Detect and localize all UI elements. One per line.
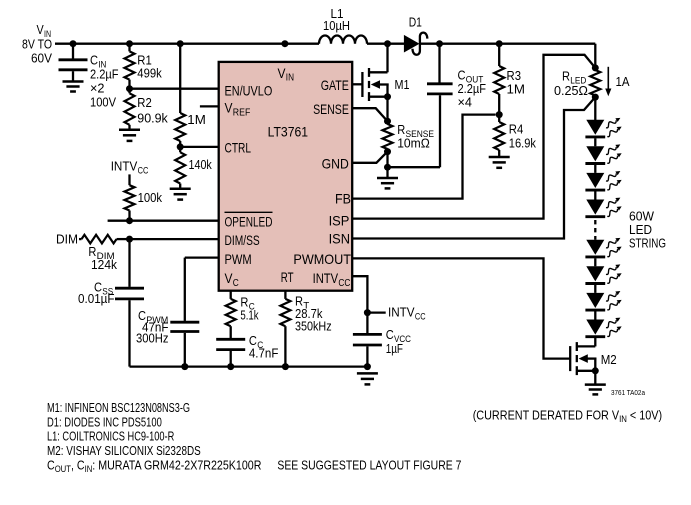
svg-text:V: V bbox=[225, 270, 234, 286]
pin label OPENLED bbox=[225, 212, 273, 229]
wire LED string to M2 drain bbox=[594, 337, 596, 347]
label R_LED bbox=[554, 69, 588, 99]
LED D1 light rays bbox=[606, 118, 622, 137]
svg-text:16.9k: 16.9k bbox=[509, 136, 537, 151]
svg-text:M1: INFINEON BSC123N08NS3-G: M1: INFINEON BSC123N08NS3-G bbox=[47, 400, 190, 415]
svg-text:M2: M2 bbox=[601, 352, 617, 367]
net label INTVCC right bbox=[388, 305, 426, 322]
node DIM/SS junction bbox=[126, 236, 133, 243]
node CC-rail junction bbox=[227, 363, 234, 370]
label 140k bbox=[189, 157, 213, 172]
wire LED link bbox=[594, 165, 596, 173]
svg-text:R2: R2 bbox=[137, 95, 152, 110]
pin label CTRL bbox=[225, 140, 252, 156]
pin label GATE bbox=[321, 77, 349, 93]
label 60W LED STRING bbox=[629, 209, 666, 251]
svg-text:350kHz: 350kHz bbox=[295, 318, 332, 333]
pin label ISN bbox=[329, 230, 350, 246]
svg-text:OPENLED: OPENLED bbox=[225, 214, 273, 230]
svg-text:ISN: ISN bbox=[329, 230, 350, 246]
svg-text:1A: 1A bbox=[616, 74, 630, 89]
svg-text:V: V bbox=[225, 100, 234, 116]
note M1 bbox=[47, 400, 190, 415]
label M2 bbox=[601, 352, 617, 367]
wire LED link bbox=[594, 285, 596, 293]
svg-text:(CURRENT DERATED FOR VIN < 10V: (CURRENT DERATED FOR VIN < 10V) bbox=[473, 407, 662, 424]
label R_T bbox=[295, 294, 332, 334]
wire LED link bbox=[594, 258, 596, 266]
svg-text:V: V bbox=[37, 22, 44, 37]
label R_SENSE bbox=[397, 122, 434, 151]
node RLED top junction bbox=[592, 64, 599, 71]
LED D1 of string bbox=[585, 120, 605, 137]
node CVCC-rail junction bbox=[364, 363, 371, 370]
svg-text:RT: RT bbox=[281, 269, 294, 285]
capacitor C_VCC bbox=[353, 313, 382, 367]
LED D7 light rays bbox=[606, 291, 622, 310]
wire FB bbox=[352, 115, 495, 199]
label C_VCC bbox=[386, 327, 411, 356]
svg-text:M1: M1 bbox=[395, 77, 410, 92]
svg-text:V: V bbox=[278, 65, 287, 81]
resistor R_C bbox=[226, 291, 236, 338]
LED D6 light rays bbox=[606, 264, 622, 283]
svg-text:IN: IN bbox=[286, 73, 294, 84]
capacitor C_PWM bbox=[170, 258, 199, 367]
pin label DIM/SS bbox=[225, 232, 260, 248]
IC name LT3761 bbox=[268, 123, 309, 139]
svg-text:90.9k: 90.9k bbox=[137, 111, 168, 126]
LED D7 of string bbox=[585, 293, 605, 310]
svg-text:INTV: INTV bbox=[388, 305, 415, 320]
wire OPENLED bbox=[108, 220, 219, 222]
wire input rail bbox=[55, 43, 319, 45]
svg-text:D1: DIODES INC PDS5100: D1: DIODES INC PDS5100 bbox=[47, 414, 162, 429]
pin label ISP bbox=[329, 212, 350, 228]
svg-text:REF: REF bbox=[233, 108, 251, 119]
svg-text:STRING: STRING bbox=[629, 236, 666, 251]
node R3 junction bbox=[496, 40, 503, 47]
resistor 100k bbox=[125, 174, 135, 220]
svg-text:DIM: DIM bbox=[56, 232, 78, 247]
label L1 bbox=[323, 6, 350, 33]
wire dashed LED string break bbox=[594, 220, 596, 240]
node RSENSE bottom junction bbox=[384, 148, 391, 155]
note COUT CIN bbox=[47, 457, 261, 474]
svg-text:60V: 60V bbox=[31, 50, 52, 65]
wire LED link bbox=[594, 138, 596, 146]
svg-text:10µH: 10µH bbox=[323, 18, 350, 33]
ground below R2 bbox=[119, 130, 140, 141]
node CTRL junction bbox=[177, 143, 184, 150]
transistor M1 bbox=[362, 68, 388, 101]
svg-text:100V: 100V bbox=[90, 95, 116, 110]
svg-text:SEE SUGGESTED LAYOUT FIGURE 7: SEE SUGGESTED LAYOUT FIGURE 7 bbox=[277, 458, 461, 473]
pin label VC bbox=[225, 270, 239, 289]
note current derated bbox=[473, 407, 662, 424]
svg-text:×2: ×2 bbox=[90, 81, 105, 96]
transistor M2 bbox=[570, 342, 596, 375]
svg-text:CC: CC bbox=[138, 165, 149, 176]
svg-text:CC: CC bbox=[415, 311, 426, 322]
svg-text:5.1k: 5.1k bbox=[240, 308, 259, 323]
wire LED link bbox=[594, 192, 596, 200]
LED D3 of string bbox=[585, 173, 605, 190]
svg-text:CC: CC bbox=[338, 278, 350, 289]
label R4 bbox=[509, 122, 537, 151]
resistor 1M bbox=[175, 44, 185, 147]
node R3-R4 FB junction bbox=[496, 111, 503, 118]
pin label FB bbox=[335, 191, 351, 207]
svg-text:C: C bbox=[90, 53, 98, 68]
resistor R1 bbox=[125, 44, 135, 89]
note L1 bbox=[47, 429, 174, 444]
node RT-rail junction bbox=[282, 363, 289, 370]
LED D5 of string bbox=[585, 240, 605, 257]
label R_C bbox=[240, 295, 259, 323]
ground below 140k bbox=[170, 189, 191, 200]
node 1M junction bbox=[177, 40, 184, 47]
wire LED link bbox=[594, 312, 596, 320]
capacitor C_OUT bbox=[427, 44, 453, 94]
resistor R_SENSE bbox=[383, 124, 393, 152]
svg-text:140k: 140k bbox=[189, 157, 213, 172]
svg-text:4.7nF: 4.7nF bbox=[249, 346, 279, 361]
wire PWMOUT bbox=[352, 258, 570, 358]
wire RSENSE to ground node bbox=[386, 152, 388, 168]
wire RLED to LED string bbox=[594, 97, 596, 120]
ground below C_IN bbox=[63, 82, 84, 92]
ground below RSENSE bbox=[377, 167, 398, 188]
ground below C_VCC bbox=[357, 373, 378, 384]
label C_SS bbox=[78, 280, 115, 307]
resistor R_LED bbox=[590, 70, 600, 96]
wire VREF stub bbox=[200, 105, 219, 107]
note D1 bbox=[47, 414, 162, 429]
svg-text:R4: R4 bbox=[509, 122, 524, 137]
pin label VIN bbox=[278, 65, 295, 84]
svg-text:GATE: GATE bbox=[321, 77, 349, 93]
LED D2 of string bbox=[585, 146, 605, 163]
svg-text:C: C bbox=[386, 327, 394, 342]
svg-text:0.25Ω: 0.25Ω bbox=[554, 83, 588, 98]
node VIN pin junction bbox=[281, 40, 288, 47]
svg-text:L1: COILTRONICS HC9-100-R: L1: COILTRONICS HC9-100-R bbox=[47, 429, 174, 444]
svg-text:M2: VISHAY SILICONIX Si2328DS: M2: VISHAY SILICONIX Si2328DS bbox=[47, 443, 201, 458]
wire DIM/SS bbox=[130, 238, 219, 240]
node INTVCC net junction bbox=[364, 309, 386, 316]
label C_PWM bbox=[136, 308, 169, 345]
node M2 source junction bbox=[592, 367, 599, 374]
svg-text:PWMOUT: PWMOUT bbox=[293, 251, 351, 267]
current arrow 1A bbox=[605, 67, 630, 96]
svg-text:INTV: INTV bbox=[111, 159, 138, 174]
node switch node junction bbox=[384, 40, 391, 47]
wire INTVCC pin bbox=[352, 276, 367, 311]
LED D8 light rays bbox=[606, 318, 622, 337]
net label DIM bbox=[56, 232, 78, 247]
wire ISP bbox=[352, 55, 595, 219]
svg-text:LT3761: LT3761 bbox=[268, 123, 309, 139]
LED D2 light rays bbox=[606, 144, 622, 163]
resistor R_DIM bbox=[79, 235, 130, 244]
pin label VREF bbox=[225, 100, 251, 119]
node RLED bottom junction bbox=[592, 94, 599, 101]
node R1-R2 junction bbox=[126, 85, 133, 92]
label M1 bbox=[395, 77, 410, 92]
svg-text:EN/UVLO: EN/UVLO bbox=[225, 83, 273, 99]
node M1 source junction bbox=[384, 93, 391, 100]
node OPENLED junction bbox=[126, 217, 133, 224]
wire rail D1 to RLED corner bbox=[421, 44, 596, 68]
svg-text:COUT, CIN: MURATA GRM42-2X7R22: COUT, CIN: MURATA GRM42-2X7R225K100R bbox=[47, 457, 261, 474]
wire rail L1 to D1 bbox=[367, 43, 404, 45]
wire PWM bbox=[185, 256, 219, 258]
svg-text:GND: GND bbox=[322, 156, 349, 172]
resistor 140k bbox=[175, 147, 185, 189]
capacitor C_C bbox=[216, 339, 245, 366]
ground below R4 bbox=[489, 157, 510, 168]
svg-text:124k: 124k bbox=[91, 257, 117, 272]
wire M1 source to RSENSE bbox=[386, 97, 388, 122]
label 1M bbox=[187, 112, 206, 127]
wire M2 source to ground bbox=[594, 371, 596, 385]
svg-text:499k: 499k bbox=[137, 65, 162, 80]
node RSENSE ground junction bbox=[384, 164, 391, 171]
svg-text:1M: 1M bbox=[507, 82, 526, 97]
net label INTVCC left bbox=[111, 159, 149, 176]
svg-text:300Hz: 300Hz bbox=[136, 330, 169, 345]
label 100k bbox=[138, 190, 163, 205]
wire M1 drain bbox=[386, 44, 388, 73]
LED D3 light rays bbox=[606, 171, 622, 190]
node R1 junction bbox=[126, 40, 133, 47]
LED D4 of string bbox=[585, 200, 605, 217]
node input-CIN junction bbox=[70, 40, 77, 47]
resistor R4 bbox=[494, 115, 504, 157]
wire ISN bbox=[352, 97, 595, 238]
label R_DIM bbox=[88, 244, 117, 272]
note layout bbox=[277, 458, 461, 473]
svg-text:3761 TA02a: 3761 TA02a bbox=[611, 388, 646, 397]
wire COUT bottom return bbox=[388, 95, 441, 167]
svg-text:1M: 1M bbox=[187, 112, 206, 127]
svg-text:SENSE: SENSE bbox=[313, 101, 349, 117]
svg-text:100k: 100k bbox=[138, 190, 163, 205]
svg-text:D1: D1 bbox=[409, 14, 422, 29]
svg-text:INTV: INTV bbox=[313, 270, 339, 286]
IC U1 LT3761 bbox=[219, 62, 353, 291]
node VIN input label bbox=[22, 22, 52, 65]
node COUT junction bbox=[436, 40, 443, 47]
svg-text:C: C bbox=[233, 278, 239, 289]
label 3761 TA02a bbox=[611, 388, 646, 397]
LED D8 of string bbox=[585, 320, 605, 337]
resistor R3 bbox=[494, 44, 504, 115]
LED D5 light rays bbox=[606, 238, 622, 257]
svg-text:ISP: ISP bbox=[329, 212, 350, 228]
svg-text:10mΩ: 10mΩ bbox=[397, 136, 430, 151]
svg-text:PWM: PWM bbox=[225, 251, 252, 267]
pin label EN/UVLO bbox=[225, 83, 273, 99]
label C_OUT bbox=[458, 68, 487, 110]
capacitor C_SS bbox=[115, 239, 144, 367]
node CPWM-rail junction bbox=[181, 363, 188, 370]
node RSENSE top junction bbox=[384, 118, 391, 125]
resistor R2 bbox=[125, 89, 135, 130]
LED D6 of string bbox=[585, 266, 605, 283]
svg-text:R: R bbox=[562, 69, 570, 84]
LED D4 light rays bbox=[606, 198, 622, 217]
label R3 bbox=[507, 68, 526, 97]
pin label INTVCC bbox=[313, 270, 351, 289]
label R2 bbox=[137, 95, 168, 125]
capacitor C_IN bbox=[59, 44, 88, 82]
wire EN/UVLO bbox=[130, 88, 219, 90]
resistor R_T bbox=[280, 291, 290, 367]
svg-text:2.2µF: 2.2µF bbox=[90, 67, 119, 82]
pin label GND bbox=[322, 156, 349, 172]
note M2 bbox=[47, 443, 201, 458]
svg-text:CTRL: CTRL bbox=[225, 140, 252, 156]
svg-text:0.01µF: 0.01µF bbox=[78, 291, 115, 306]
pin label PWMOUT bbox=[293, 251, 351, 267]
svg-text:FB: FB bbox=[335, 191, 351, 207]
svg-text:DIM/SS: DIM/SS bbox=[225, 232, 260, 248]
svg-text:×4: ×4 bbox=[458, 95, 473, 110]
inductor L1 bbox=[319, 36, 367, 44]
wire SENSE bbox=[352, 108, 387, 121]
label C_C bbox=[249, 333, 279, 361]
label R1 bbox=[137, 52, 162, 80]
label C_IN bbox=[90, 53, 119, 110]
pin label RT bbox=[281, 269, 294, 285]
svg-text:1µF: 1µF bbox=[386, 341, 403, 356]
diode D1 bbox=[404, 33, 427, 55]
wire GATE bbox=[352, 83, 362, 85]
wire bottom ground rail bbox=[130, 365, 368, 367]
pin label SENSE bbox=[313, 101, 349, 117]
ground below M2 bbox=[585, 385, 606, 395]
label D1 bbox=[409, 14, 422, 29]
wire CTRL bbox=[180, 146, 219, 148]
wire GND pin bbox=[352, 152, 387, 163]
pin label PWM bbox=[225, 251, 252, 267]
